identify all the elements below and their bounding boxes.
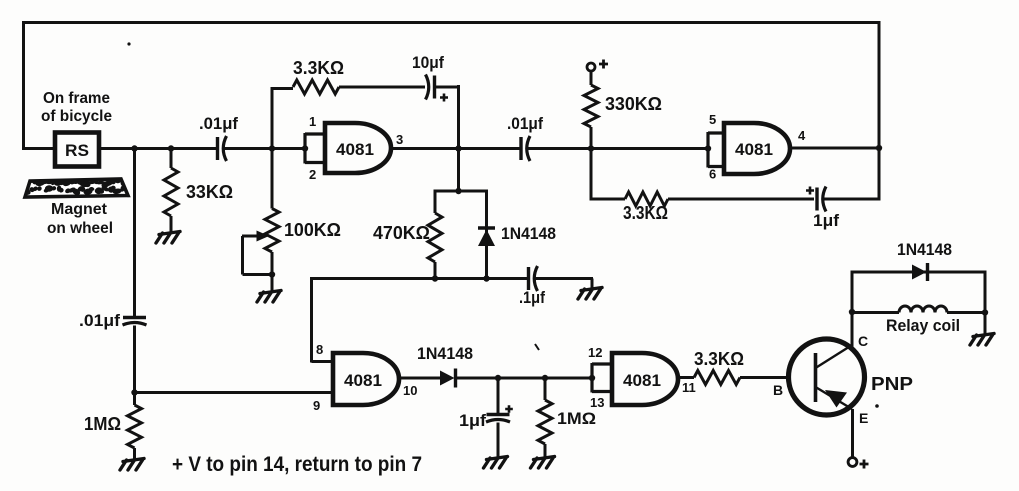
wire collector up [849, 272, 855, 349]
capacitor .01uf vertical [123, 318, 147, 326]
wire relay top rail [851, 271, 986, 274]
pin 1 [309, 114, 316, 129]
diode D2 1N4148 series [440, 369, 595, 388]
label 330K [605, 94, 662, 114]
svg-text:1: 1 [309, 114, 316, 129]
pin 11 [682, 380, 696, 395]
wire cap to node B [131, 326, 137, 396]
label .1uf [519, 289, 545, 307]
wire top rail [22, 21, 879, 24]
label .01uf vertical [79, 312, 121, 330]
label B [773, 382, 783, 398]
pin 3 [396, 132, 403, 147]
transistor collector stroke [816, 345, 853, 368]
svg-text:Magnet: Magnet [51, 201, 107, 218]
transistor base bar [814, 353, 818, 402]
node A: RS output wire to gate U1 inputs [99, 145, 308, 151]
reed switch RS box [55, 133, 99, 167]
ground for relay [970, 334, 994, 346]
pin 5 [709, 112, 716, 127]
label 10uf [412, 54, 444, 72]
svg-text:1MΩ: 1MΩ [557, 409, 596, 428]
label Relay coil [886, 316, 960, 335]
gate U2 4081 body [724, 123, 790, 174]
svg-text:On frame: On frame [43, 90, 110, 107]
svg-text:1N4148: 1N4148 [417, 344, 473, 363]
svg-text:PNP: PNP [871, 374, 913, 394]
capacitor .1uf [529, 266, 538, 291]
label Magnet on wheel [47, 201, 113, 237]
potentiometer 100K [265, 209, 279, 293]
wire bottom bus [310, 275, 527, 281]
note +V to pin 14 [172, 453, 422, 476]
label .01uf #1 [199, 115, 239, 133]
pin 9 [313, 398, 320, 413]
label 3.3K top [293, 58, 344, 78]
wire left rail vertical [22, 21, 25, 150]
svg-text:1MΩ: 1MΩ [84, 414, 121, 434]
svg-text:1N4148: 1N4148 [897, 240, 952, 259]
label 1M mid [557, 409, 596, 428]
pin 4 [798, 128, 806, 143]
resistor 1M left [128, 393, 142, 460]
supply terminal + emitter [848, 458, 868, 469]
capacitor .01uf coupling #2 [521, 136, 530, 161]
label 1uf bottom [459, 412, 487, 430]
wire 1uf to right rail [822, 198, 879, 201]
label 3.3K base [694, 349, 744, 369]
wire emitter down [851, 409, 854, 458]
svg-text:C: C [858, 333, 868, 349]
pin 13 [590, 395, 604, 410]
svg-text:4081: 4081 [344, 371, 382, 390]
ground for 1uf [484, 457, 508, 469]
wire output node down to 470K/diode bar [455, 149, 461, 195]
pot wiper arm [242, 231, 270, 275]
svg-text:330KΩ: 330KΩ [605, 94, 662, 114]
wire .1uf to ground [534, 279, 593, 289]
gate U4 4081 body [612, 353, 678, 405]
pin 6 [709, 167, 716, 182]
magnet symbol (hatched slab) [22, 177, 128, 197]
gate U3 4081 body [333, 353, 399, 405]
wire node A down to cap [133, 149, 136, 318]
svg-text:4081: 4081 [623, 371, 661, 390]
ground for pot [257, 291, 281, 303]
scan speck top-left [127, 42, 130, 45]
svg-text:B: B [773, 382, 783, 398]
svg-text:+ V to pin 14, return to pin 7: + V to pin 14, return to pin 7 [172, 453, 422, 476]
svg-text:8: 8 [316, 342, 323, 357]
svg-text:13: 13 [590, 395, 604, 410]
wire 10uf to output node [435, 85, 459, 150]
pin 12 [588, 345, 602, 360]
label 100K [284, 220, 341, 240]
capacitor 1uf U2 feedback [806, 187, 826, 212]
resistor 330K [584, 71, 598, 150]
label 1N4148 relay [897, 240, 952, 259]
speck near E [875, 404, 879, 408]
svg-text:10: 10 [403, 383, 417, 398]
wire bus to pin 8 [312, 277, 334, 363]
pin 10 [403, 383, 417, 398]
svg-text:2: 2 [309, 167, 316, 182]
wire relay right vertical [984, 271, 987, 335]
transistor emitter arrow (PNP) [825, 390, 847, 408]
op-amp gate U1 4081 input bracket [305, 133, 325, 164]
wire U1 output [390, 145, 520, 151]
svg-text:33KΩ: 33KΩ [186, 182, 233, 202]
wire left rail to RS [22, 147, 54, 150]
svg-text:11: 11 [682, 380, 696, 395]
svg-text:6: 6 [709, 167, 716, 182]
label 33K [186, 182, 233, 202]
svg-text:Relay coil: Relay coil [886, 316, 960, 335]
diode D3 1N4148 relay [912, 263, 928, 281]
transistor emitter stroke [816, 387, 853, 409]
svg-text:100KΩ: 100KΩ [284, 220, 341, 240]
resistor 1M mid [538, 378, 552, 457]
capacitor 10uf [426, 75, 449, 102]
capacitor 1uf bottom [486, 378, 513, 422]
pin 2 [309, 167, 316, 182]
supply terminal + for 330K [587, 60, 608, 72]
svg-text:E: E [859, 410, 868, 426]
svg-text:10μf: 10μf [412, 54, 444, 72]
svg-text:3.3KΩ: 3.3KΩ [623, 203, 668, 223]
gate U1 4081 body [325, 123, 391, 173]
svg-text:.01μf: .01μf [507, 115, 543, 133]
label On frame of bicycle [41, 90, 112, 125]
ground for 1M mid [531, 457, 555, 469]
wire cap2 to gate U2 [526, 145, 711, 151]
svg-text:on wheel: on wheel [47, 220, 113, 237]
wire bar over 470K and D1 [435, 190, 487, 193]
svg-text:4081: 4081 [336, 140, 374, 159]
transistor Q1 circle [789, 339, 865, 415]
resistor 33KΩ [164, 149, 178, 233]
capacitor .01uf input coupling [218, 136, 227, 161]
svg-text:9: 9 [313, 398, 320, 413]
gate U4 4081 input bracket [592, 363, 612, 393]
svg-text:1N4148: 1N4148 [501, 224, 556, 243]
gate U2 4081 input bracket [708, 132, 724, 168]
diode D1 1N4148 vertical [478, 190, 495, 280]
svg-text:12: 12 [588, 345, 602, 360]
wire right rail vertical [878, 21, 881, 201]
label E [859, 410, 868, 426]
label C [858, 333, 868, 349]
svg-text:1μf: 1μf [813, 212, 840, 230]
label 3.3K U2 [623, 203, 668, 223]
pin 8 [316, 342, 323, 357]
wire U2 output to right rail [792, 145, 882, 151]
label .01uf #2 [507, 115, 543, 133]
resistor 470K [428, 190, 442, 280]
svg-text:4: 4 [798, 128, 806, 143]
label 1N4148 D2 [417, 344, 473, 363]
label 470K [373, 223, 430, 243]
wire node B to pin 9 [135, 391, 334, 394]
svg-text:.01μf: .01μf [199, 115, 239, 133]
label 1N4148 D1 [501, 224, 556, 243]
relay coil inductor [852, 306, 988, 316]
svg-text:RS: RS [65, 141, 89, 160]
label 1M left [84, 414, 121, 434]
svg-text:5: 5 [709, 112, 716, 127]
resistor 3.3K base [678, 371, 788, 385]
ground for 33K [156, 232, 180, 244]
label PNP [871, 374, 913, 394]
svg-text:3: 3 [396, 132, 403, 147]
resistor 3.3K feedback U1 [271, 80, 426, 94]
label 1uf U2 [813, 212, 840, 230]
svg-text:1μf: 1μf [459, 412, 487, 430]
svg-text:4081: 4081 [735, 140, 773, 159]
wire 1uf to ground [497, 423, 500, 458]
wire feedback branch vertical x272 [271, 87, 274, 209]
wire U3 output [399, 377, 440, 380]
svg-text:470KΩ: 470KΩ [373, 223, 430, 243]
wire U2 feedback down from node [590, 148, 593, 201]
svg-text:.01μf: .01μf [79, 312, 121, 330]
svg-text:of bicycle: of bicycle [41, 108, 112, 125]
scan speck mid [535, 344, 539, 350]
svg-text:3.3KΩ: 3.3KΩ [694, 349, 744, 369]
ground for .1uf [578, 288, 602, 300]
svg-text:.1μf: .1μf [519, 289, 545, 307]
svg-text:3.3KΩ: 3.3KΩ [293, 58, 344, 78]
resistor 3.3K U2 feedback [590, 192, 815, 206]
ground for 1M left [120, 459, 144, 471]
